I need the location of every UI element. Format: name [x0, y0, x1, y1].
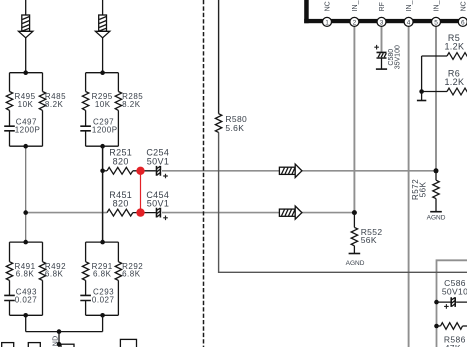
- svg-text:56K: 56K: [419, 181, 428, 197]
- svg-text:6.8K: 6.8K: [45, 270, 64, 279]
- signal flow arrow (right) row1: [279, 164, 302, 177]
- svg-text:8.2K: 8.2K: [122, 100, 141, 109]
- svg-text:820: 820: [113, 156, 129, 166]
- resistor R492 6.8K: [39, 262, 45, 281]
- svg-text:IN_: IN_: [406, 0, 413, 11]
- svg-text:0.027: 0.027: [92, 295, 115, 304]
- resistor R586 47K: [437, 325, 441, 327]
- svg-text:6.8K: 6.8K: [122, 270, 141, 279]
- boundary dashed line: [203, 0, 205, 347]
- junction node box3 bottom: [23, 313, 28, 318]
- capacitor C580 35V100 (electrolytic to ground): [377, 52, 387, 58]
- junction node box4 bottom: [100, 313, 105, 318]
- svg-text:NC: NC: [325, 1, 332, 11]
- svg-text:1.2K: 1.2K: [444, 42, 464, 52]
- svg-text:AGND: AGND: [346, 260, 365, 267]
- pin 3 circle: [377, 17, 386, 26]
- svg-text:1200P: 1200P: [15, 125, 41, 134]
- wire AGND bus at bottom: [26, 315, 103, 347]
- connector pin box b: [28, 343, 40, 347]
- test point marker red dot 2: [136, 208, 144, 216]
- wire right branch vertical between networks: [102, 146, 104, 242]
- ground AGND for R572: [430, 211, 442, 213]
- capacitor C586 50V10 (electrolytic): [437, 301, 467, 303]
- wire pin4 net vertical: [408, 26, 410, 347]
- wire input net 2: [102, 0, 104, 73]
- wire subcircuit L-bend (C586 block): [437, 260, 467, 347]
- capacitor C254 50V1 (electrolytic): [157, 166, 161, 176]
- wire left branch vertical between networks: [25, 146, 27, 242]
- svg-text:0.027: 0.027: [15, 295, 38, 304]
- wire R580 net with corner to right: [218, 0, 220, 114]
- svg-text:AGND: AGND: [53, 336, 60, 347]
- test point marker red dot 1: [136, 167, 144, 175]
- resistor R292 6.8K: [115, 262, 121, 281]
- junction node row2 right (pin2): [352, 210, 357, 215]
- junction node box2 bottom: [100, 144, 105, 149]
- ground AGND for R552: [349, 253, 361, 255]
- connector pin box d: [120, 339, 136, 347]
- svg-text:35V100: 35V100: [395, 45, 402, 69]
- resistor R495 10K: [6, 92, 12, 111]
- junction AGND at pin box: [57, 342, 62, 347]
- resistor R491 6.8K: [6, 262, 12, 281]
- junction node row1 left: [100, 169, 105, 174]
- capacitor C297 1200P: [80, 126, 91, 131]
- svg-text:56K: 56K: [361, 235, 377, 245]
- IC U (connector) left edge: [304, 0, 309, 23]
- resistor R5 1.2K: [422, 55, 447, 57]
- junction node R586 tap: [434, 324, 439, 329]
- svg-text:8.2K: 8.2K: [45, 100, 64, 109]
- ground tick for R5/R6: [421, 92, 423, 101]
- junction node box3 top: [23, 240, 28, 245]
- capacitor C493 0.027: [4, 295, 15, 300]
- connector pin box c: [61, 344, 74, 347]
- svg-text:IN_: IN_: [434, 0, 441, 11]
- wire RC network 1 outline: [10, 73, 43, 147]
- pin 2 circle: [350, 17, 359, 26]
- svg-text:47K: 47K: [445, 343, 461, 347]
- svg-text:1.2K: 1.2K: [444, 77, 464, 87]
- wire RC network 3 outline: [10, 242, 43, 315]
- resistor R295 10K: [82, 92, 88, 111]
- wire input net 1: [25, 0, 27, 73]
- svg-text:IN_: IN_: [352, 0, 359, 11]
- svg-text:2: 2: [353, 19, 357, 26]
- svg-text:AGND: AGND: [427, 214, 446, 221]
- resistor R451 820: [107, 209, 133, 216]
- signal flow arrow (down) net 2: [95, 15, 109, 38]
- wire RC network 2 outline: [86, 73, 119, 147]
- junction AGND bus: [57, 329, 62, 334]
- svg-text:RF: RF: [379, 2, 386, 11]
- IC U (connector) bottom bar: [304, 19, 467, 23]
- signal flow arrow (down) net 1: [19, 15, 33, 38]
- svg-text:3: 3: [380, 19, 384, 26]
- junction node row2 left branch tap: [23, 210, 28, 215]
- resistor R572 56K: [435, 171, 437, 180]
- svg-text:10K: 10K: [95, 100, 111, 109]
- junction node box1 bottom: [23, 144, 28, 149]
- resistor R485 8.2K: [39, 92, 45, 111]
- svg-text:50V1: 50V1: [147, 198, 169, 208]
- resistor R251 820: [103, 170, 107, 172]
- junction node box4 top: [100, 240, 105, 245]
- wire pin3 net vertical: [381, 26, 383, 52]
- signal flow arrow (right) row2: [279, 206, 302, 219]
- junction R5/R6 node: [419, 89, 424, 94]
- pin 1 circle: [323, 17, 332, 26]
- svg-text:1200P: 1200P: [92, 125, 118, 134]
- connector pin box a: [2, 343, 14, 347]
- junction node box2 top: [100, 70, 105, 75]
- junction node row1 right (pin5): [434, 168, 439, 173]
- svg-text:10K: 10K: [18, 100, 34, 109]
- wire row2 signal left (gray): [26, 212, 107, 214]
- svg-text:6: 6: [461, 19, 465, 26]
- resistor R291 6.8K: [82, 262, 88, 281]
- wire row1 signal (gray): [162, 170, 436, 172]
- wire pin2 net vertical: [353, 26, 355, 212]
- svg-text:820: 820: [113, 198, 129, 208]
- svg-text:6.8K: 6.8K: [93, 270, 112, 279]
- capacitor C454 50V1 (electrolytic): [157, 208, 161, 218]
- junction node box1 top: [23, 70, 28, 75]
- resistor R285 8.2K: [115, 92, 121, 111]
- pin 4 circle: [404, 17, 413, 26]
- capacitor C497 1200P: [4, 126, 15, 131]
- svg-text:50V10: 50V10: [442, 287, 467, 297]
- svg-text:50V1: 50V1: [147, 156, 169, 166]
- ground tick for C580: [376, 68, 387, 70]
- wire pin5 net vertical: [435, 26, 437, 170]
- pin 5 circle: [432, 17, 441, 26]
- svg-text:5: 5: [434, 19, 438, 26]
- svg-text:1: 1: [325, 19, 329, 26]
- wire row2 signal right (gray): [162, 212, 354, 214]
- wire R5/R6 common: [421, 56, 423, 92]
- junction node C586 tap: [434, 300, 439, 305]
- resistor R552 56K: [353, 213, 355, 228]
- test point marker red line: [140, 174, 142, 209]
- capacitor C293 0.027: [80, 295, 91, 300]
- svg-text:5.6K: 5.6K: [225, 123, 244, 133]
- resistor R6 1.2K: [422, 91, 447, 93]
- pin 6 circle: [458, 17, 467, 26]
- svg-text:4: 4: [407, 19, 411, 26]
- wire RC network 4 outline: [86, 242, 119, 315]
- resistor R580 5.6K: [215, 114, 221, 133]
- svg-text:6.8K: 6.8K: [16, 270, 35, 279]
- svg-text:NC: NC: [460, 1, 467, 11]
